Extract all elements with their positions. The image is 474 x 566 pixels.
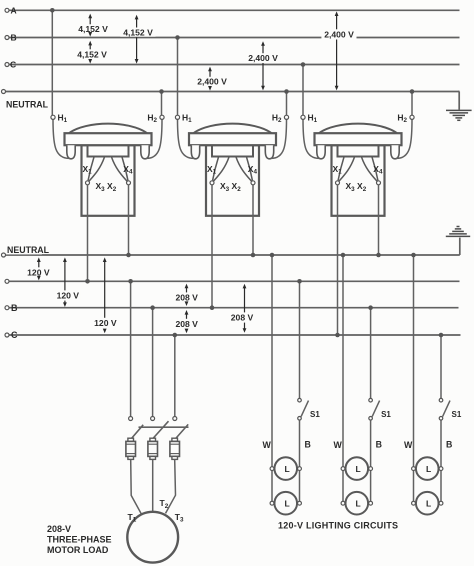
arrow up to bus A (208V A-C): [243, 284, 247, 313]
svg-text:120-V LIGHTING CIRCUITS: 120-V LIGHTING CIRCUITS: [278, 521, 398, 531]
voltage label 208V B-C: [174, 319, 200, 329]
wire: bus A to switch S1, branch 1: [299, 281, 301, 398]
node A terminal: [5, 8, 9, 12]
wire: secondary phase C bus: [9, 334, 461, 336]
svg-text:208-V: 208-V: [47, 524, 71, 534]
svg-text:B: B: [305, 440, 311, 450]
wire: neutral (W) conductor, lighting branch 2: [342, 255, 344, 503]
switch S1 top contact, branch 1: [298, 398, 302, 402]
switch contact pole 2: [151, 417, 155, 421]
wire: T3 X-left to bus C: [337, 185, 339, 335]
junction neutral / T3-H2: [410, 89, 415, 94]
fuse F1: [126, 438, 136, 459]
svg-text:B: B: [11, 33, 17, 43]
lamp L2, branch 1: [270, 492, 301, 515]
svg-text:120 V: 120 V: [94, 318, 117, 328]
voltage label 2400V B-N: [245, 53, 280, 63]
fuse F3: [170, 438, 180, 459]
wire: T2 X-right to neutral bus: [252, 185, 254, 255]
arrow up to neutral (120V N-A): [37, 257, 41, 267]
switch contact pole 3: [173, 417, 177, 421]
switch S1 top contact, branch 2: [369, 398, 373, 402]
svg-text:L: L: [426, 499, 431, 509]
neutral terminal: [2, 90, 6, 94]
voltage label 120V N-A: [26, 267, 52, 277]
arrow down to C (4152V B-C): [88, 59, 92, 64]
svg-text:4,152 V: 4,152 V: [77, 49, 107, 59]
lamp L2, branch 3: [412, 492, 443, 515]
conductor label B, branch 1: [304, 439, 311, 449]
wire: secondary phase A bus: [9, 280, 460, 282]
junction bus B / motor feeder: [150, 305, 155, 310]
wire: neutral to earth ground G1: [458, 92, 460, 110]
arrow up to neutral (120V N-B): [63, 257, 67, 290]
voltage label 4152V A-C: [120, 27, 155, 37]
svg-text:W: W: [263, 440, 272, 450]
svg-text:MOTOR LOAD: MOTOR LOAD: [47, 545, 109, 555]
junction bus A / B wire branch 1: [297, 279, 302, 284]
svg-text:B: B: [11, 303, 18, 313]
conductor label B, branch 2: [375, 439, 382, 449]
svg-text:L: L: [355, 499, 360, 509]
voltage label 4152V A-B: [75, 24, 110, 34]
voltage label 208V A-B: [174, 292, 200, 302]
lamp L1, branch 2: [341, 457, 372, 480]
wire: bus B to motor switch pole 2: [152, 308, 154, 417]
wire: neutral to T2 H2: [286, 92, 288, 116]
svg-text:THREE-PHASE: THREE-PHASE: [47, 534, 112, 544]
arrow up to bus B (208V B-C): [185, 310, 189, 319]
wire: T2 X-left to bus B: [211, 185, 213, 308]
wire: bus C to motor switch pole 3: [174, 335, 176, 416]
switch blade pole 3: [174, 424, 188, 440]
transformer T3 (pole transformer, H1/H2 primary bushings, X1-X4 secondary): [301, 112, 414, 215]
node B terminal: [5, 36, 9, 40]
transformer T1 (pole transformer, H1/H2 primary bushings, X1-X4 secondary): [51, 112, 164, 215]
junction bus C / motor feeder: [173, 333, 178, 338]
wire: secondary neutral bus: [5, 254, 460, 256]
wire: secondary phase B bus: [9, 307, 459, 309]
svg-text:208 V: 208 V: [231, 313, 254, 323]
switch S1 top contact, branch 3: [439, 398, 443, 402]
wire: primary neutral: [5, 91, 460, 93]
wire: black (B) conductor below switch, branch 2: [370, 420, 372, 503]
arrow up toward C (2400V C-N): [208, 67, 212, 77]
switch S1 bottom contact, branch 1: [298, 417, 302, 421]
svg-text:L: L: [355, 464, 360, 474]
lamp L1, branch 3: [412, 457, 443, 480]
junction T3 secondary / neutral: [376, 253, 381, 258]
wire: secondary neutral to earth ground G2: [459, 238, 461, 255]
switch blade pole 1: [130, 425, 144, 441]
secondary bus A terminal: [5, 279, 9, 283]
junction T1 secondary / neutral: [126, 253, 131, 258]
junction neutral / W wire branch 3: [411, 253, 416, 258]
secondary bus B terminal: [5, 306, 9, 310]
arrow up to A (2400V A-N): [335, 11, 339, 29]
svg-text:A: A: [11, 5, 17, 15]
wire: neutral to T3 H2: [411, 92, 413, 116]
wire: fuse F1 to motor T1: [131, 460, 142, 515]
svg-text:W: W: [404, 440, 413, 450]
svg-text:C: C: [10, 60, 16, 70]
conductor label W, branch 1: [262, 440, 272, 450]
arrow down to B (4152V A-B): [88, 32, 92, 37]
switch gang tie bar: [139, 426, 189, 428]
motor M (three-phase motor): [127, 512, 178, 563]
junction neutral / W wire branch 2: [341, 253, 346, 258]
svg-text:208 V: 208 V: [175, 319, 198, 329]
arrow down to bus C (208V A-C): [243, 323, 247, 333]
switch S1 blade, branch 2: [372, 401, 379, 417]
svg-text:C: C: [11, 330, 18, 340]
arrow down to neutral (2400V A-N): [335, 40, 339, 91]
svg-text:2,400 V: 2,400 V: [197, 76, 227, 86]
junction neutral / W wire branch 1: [270, 253, 275, 258]
wire: phase C feeder: [9, 64, 460, 66]
wire: neutral (W) conductor, lighting branch 1: [271, 255, 273, 503]
secondary neutral terminal: [2, 253, 6, 257]
junction neutral / T1-H2: [159, 89, 164, 94]
arrow down to bus B (120V N-B): [63, 301, 67, 307]
arrow up toward B (2400V B-N): [261, 41, 265, 53]
switch blade pole 2: [151, 421, 169, 440]
ground G2: [446, 227, 470, 237]
switch S1 bottom contact, branch 3: [439, 417, 443, 421]
arrow down to neutral (2400V C-N): [208, 86, 212, 91]
wire: T1 X-left to bus A: [87, 185, 89, 281]
svg-text:2,400 V: 2,400 V: [324, 30, 354, 40]
arrow down to neutral (2400V B-N): [261, 63, 265, 90]
arrow up to neutral (120V N-C): [103, 257, 107, 317]
wire: T1 X-right to neutral bus: [128, 185, 130, 255]
wire: phase B to T2 H1: [177, 38, 179, 116]
switch S1 bottom contact, branch 2: [369, 417, 373, 421]
wire: bus C to switch S1, branch 3: [440, 335, 442, 398]
voltage label 2400V C-N: [194, 76, 229, 86]
wire: phase B feeder: [9, 37, 460, 39]
wire: phase C to T3 H1: [302, 65, 304, 116]
arrow down to bus C (208V B-C): [185, 329, 189, 334]
fuse F2: [148, 438, 158, 459]
arrow up to bus A (208V A-B): [185, 284, 189, 293]
voltage label 4152V B-C: [74, 49, 109, 59]
wire: bus B to switch S1, branch 2: [370, 308, 372, 399]
svg-text:L: L: [284, 499, 289, 509]
arrow up to B (4152V B-C): [88, 41, 92, 50]
conductor label B, branch 3: [445, 439, 452, 449]
voltage label 120V N-B: [55, 290, 81, 300]
conductor label W, branch 3: [403, 440, 413, 450]
secondary NEUTRAL label: [6, 245, 50, 255]
wire: neutral (W) conductor, lighting branch 3: [413, 255, 415, 503]
arrow down to C (4152V A-C): [135, 37, 139, 63]
voltage label 2400V A-N: [321, 29, 356, 39]
svg-text:NEUTRAL: NEUTRAL: [6, 100, 49, 110]
primary NEUTRAL label: [5, 99, 49, 109]
arrow up toward A (4152V A-C): [135, 15, 139, 28]
junction bus C / B wire branch 3: [439, 333, 444, 338]
svg-text:B: B: [446, 440, 452, 450]
wire: fuse F2 to motor T2: [152, 460, 154, 512]
arrow down to bus B (208V A-B): [185, 301, 189, 306]
wire: bus A to motor switch pole 1: [130, 281, 132, 416]
svg-text:4,152 V: 4,152 V: [78, 24, 108, 34]
junction C / T3-H1: [301, 62, 306, 67]
junction T2 secondary / neutral: [251, 253, 256, 258]
svg-text:S1: S1: [381, 410, 391, 419]
wire: phase A feeder: [9, 9, 460, 11]
voltage label 120V N-C: [93, 318, 119, 328]
wire: T3 X-right to neutral bus: [378, 185, 380, 255]
svg-text:2,400 V: 2,400 V: [248, 53, 278, 63]
arrow up to A (4152V A-B): [88, 14, 92, 25]
conductor label W, branch 2: [333, 440, 343, 450]
switch S1 blade, branch 1: [301, 401, 308, 417]
svg-text:NEUTRAL: NEUTRAL: [7, 245, 50, 255]
transformer T2 (pole transformer, H1/H2 primary bushings, X1-X4 secondary): [175, 112, 288, 215]
svg-text:4,152 V: 4,152 V: [123, 27, 153, 37]
wire: black (B) conductor below switch, branch 3: [440, 420, 442, 503]
node C terminal: [5, 63, 9, 67]
svg-text:S1: S1: [310, 410, 320, 419]
svg-text:W: W: [334, 440, 343, 450]
lamp L1, branch 1: [270, 457, 301, 480]
ground G1: [446, 110, 472, 120]
wire: neutral to T1 H2: [161, 92, 163, 116]
junction T2 secondary / bus B: [210, 305, 215, 310]
junction neutral / T2-H2: [284, 89, 289, 94]
secondary bus C terminal: [5, 333, 9, 337]
arrow down to bus A (120V N-A): [37, 276, 41, 281]
junction T3 secondary / bus C: [335, 333, 340, 338]
junction bus A / motor feeder: [128, 279, 133, 284]
lamp L2, branch 2: [341, 492, 372, 515]
switch contact pole 1: [129, 417, 133, 421]
arrow down to bus C (120V N-C): [103, 329, 107, 334]
svg-text:120 V: 120 V: [57, 291, 80, 301]
svg-text:208 V: 208 V: [175, 293, 198, 303]
wire: fuse F3 to motor T3: [166, 460, 176, 514]
switch S1 blade, branch 3: [443, 401, 450, 417]
svg-text:L: L: [426, 464, 431, 474]
wire: phase A to T1 H1: [51, 10, 53, 115]
svg-text:S1: S1: [452, 410, 462, 419]
wire: black (B) conductor below switch, branch 1: [299, 420, 301, 503]
svg-text:B: B: [376, 440, 382, 450]
junction B / T2-H1: [175, 35, 180, 40]
voltage label 208V A-C: [229, 312, 255, 322]
junction bus B / B wire branch 2: [368, 305, 373, 310]
svg-text:L: L: [284, 464, 289, 474]
junction T1 secondary / bus A: [85, 279, 90, 284]
junction A / T1-H1: [50, 8, 55, 13]
